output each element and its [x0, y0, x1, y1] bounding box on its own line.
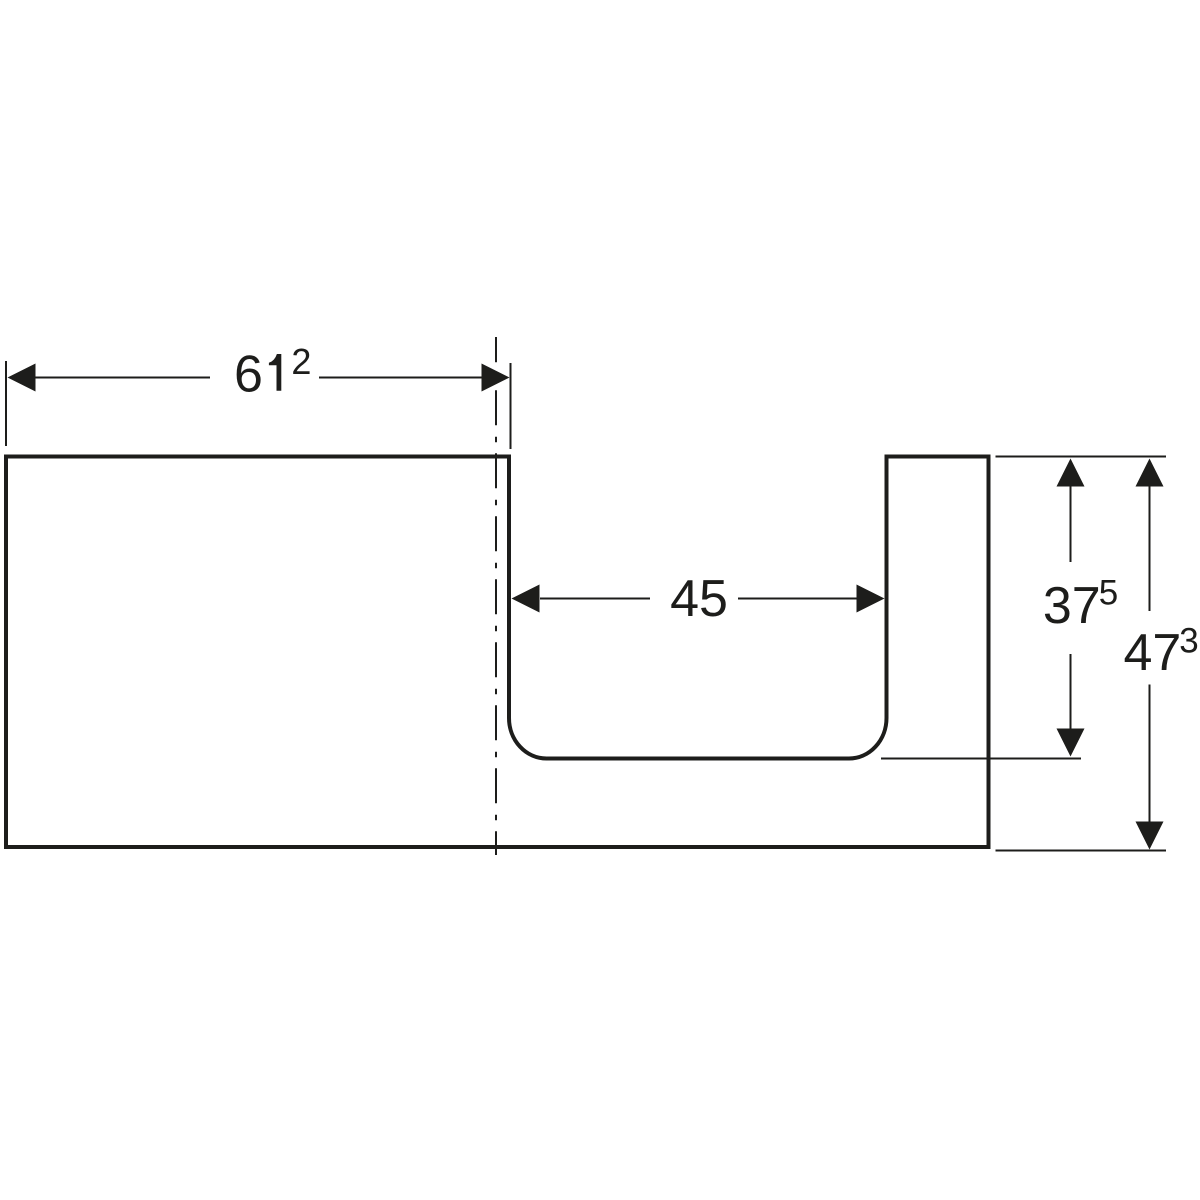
- dim 45 arrow left: [512, 585, 540, 613]
- svg-text:45: 45: [670, 570, 728, 628]
- dim 37-5 arrow down: [1057, 729, 1085, 757]
- dim 47-3 line lower segment: [1149, 685, 1151, 823]
- dim 37-5 arrow up: [1057, 459, 1085, 487]
- dim 45 line right segment: [738, 598, 857, 600]
- svg-text:5: 5: [1099, 574, 1118, 613]
- svg-text:2: 2: [291, 341, 311, 382]
- centerline (dash-dot): [495, 337, 497, 855]
- svg-text:6: 6: [234, 346, 263, 404]
- top extension line right side: [996, 456, 1167, 458]
- dim 61-2 label digit 1: [269, 354, 281, 391]
- svg-text:3: 3: [1179, 621, 1198, 660]
- dim 61-2 extension line left: [5, 361, 7, 446]
- dim 47-3 arrow up: [1136, 459, 1164, 487]
- svg-text:47: 47: [1123, 624, 1181, 682]
- dim 61-2 arrow right: [482, 364, 510, 392]
- dim 61-2 extension line right: [510, 363, 512, 449]
- dim 61-2 arrow left: [8, 364, 36, 392]
- cutout-bottom extension line: [881, 758, 1081, 760]
- svg-text:37: 37: [1043, 577, 1101, 635]
- dim 47-3 line upper segment: [1149, 486, 1151, 611]
- dim 61-2 line left segment: [10, 377, 210, 379]
- dim 61-2 line right segment: [319, 377, 506, 379]
- dim 37-5 line upper segment: [1070, 486, 1072, 562]
- countertop outline with U-shaped cutout: [6, 457, 989, 848]
- dim 37-5 line lower segment: [1070, 654, 1072, 729]
- dim 47-3 arrow down: [1136, 822, 1164, 850]
- bottom extension line right side: [996, 850, 1167, 852]
- dim 45 arrow right: [857, 585, 885, 613]
- dim 45 line left segment: [540, 598, 650, 600]
